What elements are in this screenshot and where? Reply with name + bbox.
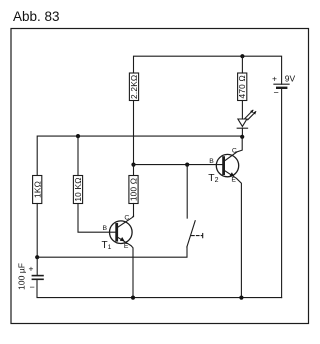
svg-text:Abb. 83: Abb. 83 bbox=[13, 9, 60, 24]
capacitor C1 minus plate bbox=[32, 278, 43, 280]
battery bottom wire bbox=[281, 88, 283, 298]
wire 1K bottom to cap node bbox=[36, 204, 38, 258]
node 2.2K/H3 bbox=[131, 163, 135, 167]
svg-text:B: B bbox=[103, 225, 108, 232]
T2 collector lead bbox=[224, 137, 242, 161]
svg-text:C: C bbox=[232, 148, 237, 155]
svg-text:1KΩ: 1KΩ bbox=[32, 181, 42, 198]
switch actuator dashes bbox=[192, 235, 202, 237]
switch actuator tick bbox=[202, 234, 204, 238]
svg-text:100 Ω: 100 Ω bbox=[128, 178, 138, 201]
wire 470 to LED bbox=[241, 101, 243, 120]
T1 base bar bbox=[115, 224, 118, 240]
wire 10K bottom to T1 base bbox=[78, 204, 115, 233]
border frame bbox=[11, 29, 309, 324]
wire 2.2K bottom to node bbox=[133, 101, 135, 165]
switch bottom wire bbox=[37, 247, 187, 257]
node cap/H4 bbox=[35, 255, 39, 259]
capacitor C1 plus plate bbox=[32, 275, 43, 277]
LED cathode bar bbox=[237, 127, 247, 129]
wire 100R top stub bbox=[133, 165, 135, 176]
wire LED to node bbox=[241, 128, 243, 137]
T2 emitter arrow bbox=[230, 172, 235, 176]
svg-text:C: C bbox=[124, 214, 129, 221]
node emitter T1 ground rail bbox=[131, 296, 135, 300]
svg-text:E: E bbox=[124, 243, 129, 250]
transistor Q2 T2 circle bbox=[216, 154, 238, 176]
svg-text:+: + bbox=[29, 264, 34, 274]
resistor R2 470 box bbox=[238, 73, 247, 101]
wire H3 to T2 base bbox=[134, 164, 223, 166]
T1 collector lead bbox=[118, 216, 134, 227]
resistor R5 100 box bbox=[129, 176, 138, 204]
svg-text:470 Ω: 470 Ω bbox=[237, 75, 247, 98]
switch S1 top wire bbox=[186, 165, 188, 219]
svg-text:+: + bbox=[272, 74, 277, 84]
svg-text:B: B bbox=[209, 158, 214, 165]
wire H2 base rail left bbox=[37, 136, 242, 175]
node H3 switch bbox=[185, 163, 189, 167]
resistor R1 2.2K box bbox=[129, 73, 138, 101]
T2 base bar bbox=[222, 158, 225, 174]
svg-text:−: − bbox=[274, 88, 279, 98]
svg-text:E: E bbox=[231, 177, 236, 184]
wire 470 top stub bbox=[241, 56, 243, 73]
transistor Q1 T1 circle bbox=[110, 221, 133, 244]
battery B1 long plate bbox=[274, 83, 289, 85]
resistor R4 10K box bbox=[73, 176, 82, 204]
node H2 to 10K bbox=[76, 134, 80, 138]
cap top wire bbox=[36, 257, 38, 275]
svg-text:2.2KΩ: 2.2KΩ bbox=[129, 75, 139, 99]
LED D1 triangle bbox=[238, 119, 247, 126]
wire 10K top stub bbox=[77, 136, 79, 175]
battery short plate bbox=[277, 87, 286, 89]
wire 100R bottom to T1 collector bbox=[133, 204, 135, 217]
wire H1 top rail bbox=[134, 56, 282, 84]
node emitter T2 ground rail bbox=[239, 296, 243, 300]
resistor R3 1K box bbox=[33, 176, 42, 204]
node LED/H2/T2 collector bbox=[240, 135, 244, 139]
T1 emitter lead bbox=[118, 237, 133, 297]
T1 emitter arrow bbox=[120, 237, 125, 241]
svg-text:−: − bbox=[30, 282, 35, 292]
node top rail to 470 bbox=[240, 54, 244, 58]
LED arrow 1 bbox=[245, 110, 253, 118]
svg-text:100 µF: 100 µF bbox=[16, 263, 26, 290]
svg-text:10 KΩ: 10 KΩ bbox=[73, 177, 83, 201]
T2 emitter lead bbox=[224, 171, 241, 298]
LED arrow 2 bbox=[248, 112, 256, 120]
svg-text:9V: 9V bbox=[285, 74, 296, 84]
cap bottom wire bbox=[37, 280, 282, 298]
switch blade bbox=[187, 221, 195, 247]
